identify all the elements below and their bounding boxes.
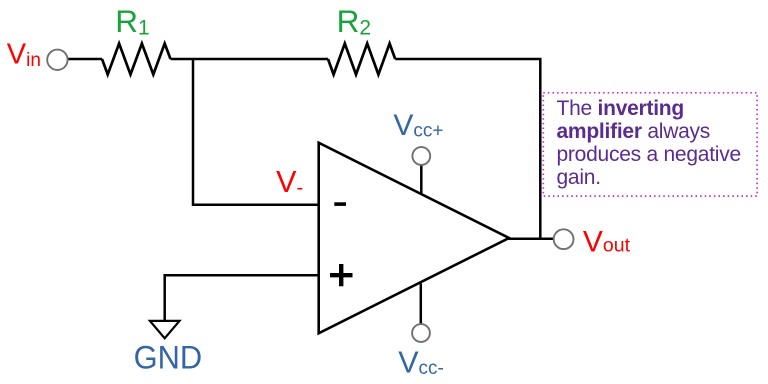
svg-text:V-: V- xyxy=(276,165,303,199)
node junction feedback xyxy=(193,59,319,205)
terminal Vin xyxy=(47,50,67,70)
svg-text:GND: GND xyxy=(134,340,203,376)
minus input symbol xyxy=(334,202,346,206)
svg-text:Vcc+: Vcc+ xyxy=(393,109,443,142)
terminal Vcc- xyxy=(412,324,430,342)
wire Vcc+ xyxy=(420,166,423,195)
op-amp U1 xyxy=(319,143,509,334)
ground xyxy=(150,321,180,338)
resistor R2 xyxy=(328,44,395,75)
terminal Vcc+ xyxy=(412,147,430,165)
terminal Vout xyxy=(554,229,574,249)
plus input symbol xyxy=(330,264,353,286)
svg-text:Vin: Vin xyxy=(7,39,41,71)
annotation text xyxy=(557,97,757,189)
wire Vcc- xyxy=(420,284,423,324)
svg-text:R2: R2 xyxy=(337,3,371,40)
wire ground to plus input xyxy=(165,275,319,320)
svg-text:Vcc-: Vcc- xyxy=(398,345,444,379)
annotation box border xyxy=(543,93,757,196)
wire Vin to R1 xyxy=(68,58,102,61)
wire output xyxy=(507,238,554,241)
wire R2 to output node xyxy=(395,59,540,239)
svg-text:R1: R1 xyxy=(115,3,149,40)
svg-text:Vout: Vout xyxy=(583,225,631,258)
wire R1 to R2 xyxy=(171,58,329,61)
resistor R1 xyxy=(102,44,171,75)
